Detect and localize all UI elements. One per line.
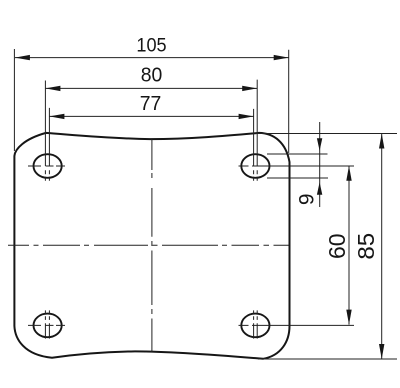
- dimension line 80: [45, 87, 257, 89]
- svg-text:77: 77: [140, 93, 162, 115]
- dimension line 60: [348, 166, 350, 325]
- dimension shaft 9: [319, 122, 321, 207]
- extension lines 105: [14, 49, 288, 153]
- dimension line 85: [381, 134, 383, 360]
- arrow 105 right: [274, 55, 289, 60]
- horizontal centerline: [8, 244, 289, 246]
- dimension line 77: [49, 115, 253, 117]
- svg-text:85: 85: [354, 233, 379, 260]
- 85 extension lines: [256, 134, 397, 360]
- arrow 80 left: [45, 86, 60, 91]
- arrow 9 upper (down): [317, 138, 322, 151]
- svg-text:60: 60: [324, 233, 350, 259]
- svg-text:80: 80: [141, 64, 163, 86]
- vertical centerline: [151, 139, 153, 352]
- arrow 80 right: [242, 86, 257, 91]
- centermark TR hole + 60 extension: [239, 165, 355, 167]
- centermark BR hole + 60 extension: [239, 324, 355, 326]
- extension lines 77 (through top holes, dash-dot below centers): [49, 108, 253, 181]
- vertical centermarks bottom-left hole: [45, 310, 49, 338]
- svg-text:105: 105: [136, 34, 166, 56]
- arrow 77 right: [239, 114, 254, 119]
- dimension line 105: [15, 57, 289, 59]
- arrow 77 left: [49, 114, 64, 119]
- centermark TL hole: [28, 165, 65, 167]
- hole bottom-left: [34, 314, 62, 338]
- hole bottom-right: [241, 314, 269, 338]
- arrow 85 bottom: [379, 344, 384, 359]
- hole top-right: [241, 154, 269, 178]
- centermark BL hole: [28, 324, 65, 326]
- plate outline: [14, 133, 289, 359]
- vertical centermarks bottom-right hole: [254, 310, 258, 338]
- arrow 105 left: [15, 55, 30, 60]
- 9-dim tangent extension lines: [267, 154, 328, 178]
- svg-text:9: 9: [296, 193, 319, 205]
- arrow 60 bottom: [346, 310, 351, 325]
- arrow 60 top: [346, 166, 351, 181]
- extension lines 80 (through top holes, dash-dot below centers): [45, 80, 257, 181]
- hole top-left: [34, 154, 62, 178]
- arrow 9 lower (up): [317, 182, 322, 195]
- arrow 85 top: [379, 134, 384, 149]
